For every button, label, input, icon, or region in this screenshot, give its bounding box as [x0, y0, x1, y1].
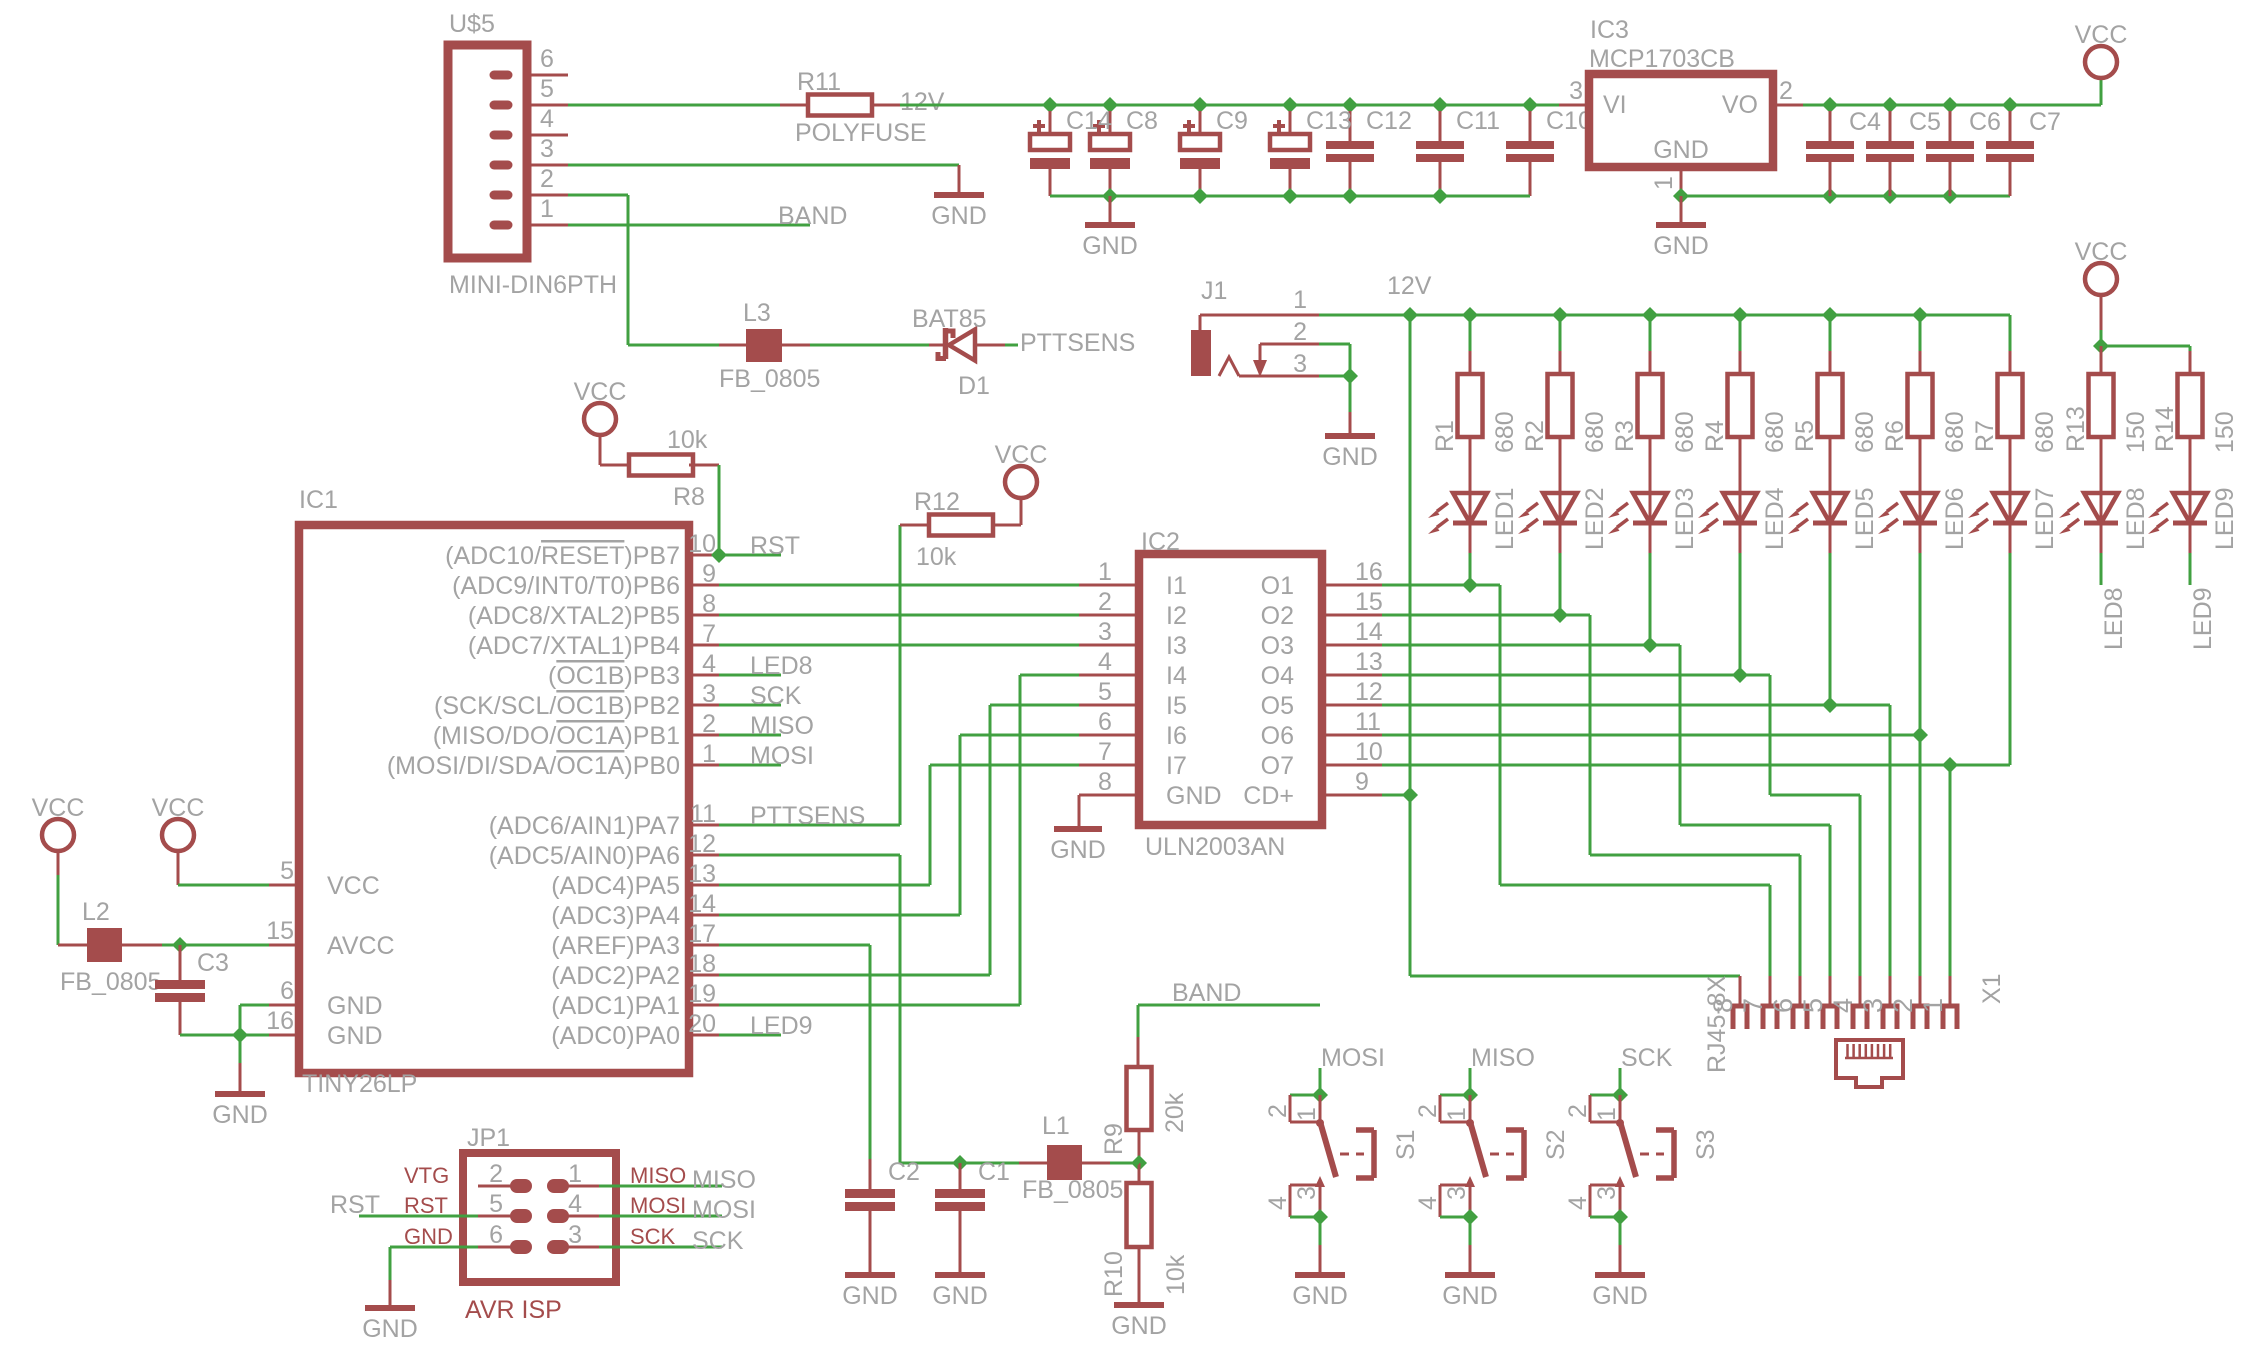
svg-text:GND: GND [1166, 782, 1222, 810]
svg-text:J1: J1 [1201, 277, 1227, 305]
svg-text:U$5: U$5 [449, 10, 495, 38]
svg-text:12: 12 [1355, 678, 1383, 706]
svg-text:MISO: MISO [1471, 1044, 1535, 1072]
svg-text:7: 7 [702, 620, 716, 648]
svg-text:S3: S3 [1692, 1129, 1720, 1160]
svg-text:1: 1 [1098, 558, 1112, 586]
svg-text:PTTSENS: PTTSENS [1020, 329, 1135, 357]
svg-text:4: 4 [702, 650, 716, 678]
svg-text:S1: S1 [1392, 1129, 1420, 1160]
svg-text:5: 5 [540, 75, 554, 103]
svg-text:VO: VO [1722, 91, 1758, 119]
svg-text:R11: R11 [797, 68, 841, 96]
svg-text:IC1: IC1 [299, 486, 338, 514]
svg-text:680: 680 [1761, 411, 1789, 453]
svg-text:VCC: VCC [2075, 21, 2128, 49]
svg-text:(ADC10/RESET)PB7: (ADC10/RESET)PB7 [445, 542, 680, 570]
svg-text:C7: C7 [2029, 108, 2061, 136]
svg-text:GND: GND [362, 1315, 418, 1343]
svg-text:8: 8 [702, 590, 716, 618]
svg-text:R4: R4 [1701, 420, 1729, 452]
svg-text:LED8: LED8 [2100, 587, 2128, 650]
svg-text:9: 9 [702, 560, 716, 588]
svg-text:RST: RST [330, 1191, 380, 1219]
svg-text:12: 12 [688, 830, 716, 858]
svg-text:C13: C13 [1306, 107, 1352, 135]
svg-text:150: 150 [2122, 411, 2150, 453]
svg-text:13: 13 [1355, 648, 1383, 676]
svg-text:(ADC6/AIN1)PA7: (ADC6/AIN1)PA7 [489, 812, 680, 840]
svg-text:10k: 10k [1162, 1254, 1190, 1295]
svg-text:R3: R3 [1611, 420, 1639, 452]
svg-text:680: 680 [1941, 411, 1969, 453]
svg-text:(ADC8/XTAL2)PB5: (ADC8/XTAL2)PB5 [468, 602, 680, 630]
svg-text:150: 150 [2211, 411, 2239, 453]
svg-text:20: 20 [688, 1010, 716, 1038]
svg-text:VCC: VCC [152, 794, 205, 822]
svg-text:I3: I3 [1166, 632, 1187, 660]
svg-text:C12: C12 [1366, 107, 1412, 135]
svg-text:19: 19 [688, 980, 716, 1008]
svg-text:GND: GND [1292, 1282, 1348, 1310]
svg-text:BAT85: BAT85 [912, 305, 987, 333]
svg-text:3: 3 [1098, 618, 1112, 646]
svg-text:3: 3 [1569, 77, 1583, 105]
svg-text:GND: GND [842, 1282, 898, 1310]
svg-text:20k: 20k [1161, 1092, 1189, 1133]
svg-text:1: 1 [702, 740, 716, 768]
svg-text:MCP1703CB: MCP1703CB [1589, 45, 1735, 73]
svg-text:5: 5 [489, 1190, 503, 1218]
svg-text:6: 6 [280, 977, 294, 1005]
svg-text:(ADC7/XTAL1)PB4: (ADC7/XTAL1)PB4 [468, 632, 680, 660]
svg-text:3: 3 [1858, 998, 1888, 1013]
svg-text:MOSI: MOSI [750, 742, 814, 770]
svg-text:3: 3 [1293, 1186, 1321, 1200]
svg-text:(ADC1)PA1: (ADC1)PA1 [551, 992, 680, 1020]
svg-text:7: 7 [1738, 998, 1768, 1013]
svg-text:2: 2 [1564, 1104, 1592, 1118]
svg-text:R8: R8 [673, 483, 705, 511]
svg-text:LED1: LED1 [1491, 487, 1519, 550]
svg-text:CD+: CD+ [1243, 782, 1294, 810]
svg-text:(AREF)PA3: (AREF)PA3 [551, 932, 680, 960]
svg-text:5: 5 [1098, 678, 1112, 706]
svg-text:R9: R9 [1100, 1123, 1128, 1155]
svg-text:2: 2 [1888, 998, 1918, 1013]
svg-text:VI: VI [1603, 91, 1627, 119]
svg-text:6: 6 [489, 1221, 503, 1249]
svg-text:12V: 12V [900, 88, 945, 116]
svg-text:VCC: VCC [32, 794, 85, 822]
svg-text:TINY26LP: TINY26LP [302, 1070, 417, 1098]
svg-text:MISO: MISO [630, 1163, 686, 1188]
svg-text:MOSI: MOSI [630, 1193, 686, 1218]
svg-text:5: 5 [280, 857, 294, 885]
svg-text:C14: C14 [1066, 107, 1112, 135]
svg-text:R7: R7 [1971, 420, 1999, 452]
svg-text:LED7: LED7 [2031, 487, 2059, 550]
svg-text:C6: C6 [1969, 108, 2001, 136]
svg-text:3: 3 [568, 1221, 582, 1249]
svg-text:6: 6 [1098, 708, 1112, 736]
svg-text:O2: O2 [1261, 602, 1294, 630]
svg-text:5: 5 [1798, 998, 1828, 1013]
svg-text:LED6: LED6 [1941, 487, 1969, 550]
svg-text:O1: O1 [1261, 572, 1294, 600]
svg-text:14: 14 [1355, 618, 1383, 646]
svg-text:VCC: VCC [995, 441, 1048, 469]
svg-text:MOSI: MOSI [1321, 1044, 1385, 1072]
svg-text:12V: 12V [1387, 272, 1432, 300]
svg-text:PTTSENS: PTTSENS [750, 802, 865, 830]
svg-text:FB_0805: FB_0805 [719, 365, 820, 393]
svg-text:LED3: LED3 [1671, 487, 1699, 550]
svg-text:(MOSI/DI/SDA/OC1A)PB0: (MOSI/DI/SDA/OC1A)PB0 [387, 752, 680, 780]
svg-text:I1: I1 [1166, 572, 1187, 600]
svg-text:VTG: VTG [404, 1163, 449, 1188]
svg-text:10: 10 [688, 530, 716, 558]
svg-text:MISO: MISO [750, 712, 814, 740]
svg-text:O5: O5 [1261, 692, 1294, 720]
svg-text:(ADC4)PA5: (ADC4)PA5 [551, 872, 680, 900]
svg-text:3: 3 [1443, 1186, 1471, 1200]
svg-text:2: 2 [1098, 588, 1112, 616]
svg-text:18: 18 [688, 950, 716, 978]
svg-text:1: 1 [1293, 286, 1307, 314]
svg-text:C1: C1 [978, 1158, 1010, 1186]
svg-text:SCK: SCK [630, 1224, 676, 1249]
svg-text:680: 680 [1581, 411, 1609, 453]
svg-text:O6: O6 [1261, 722, 1294, 750]
svg-text:I5: I5 [1166, 692, 1187, 720]
svg-text:C11: C11 [1456, 107, 1500, 135]
svg-text:LED5: LED5 [1851, 487, 1879, 550]
svg-text:4: 4 [1414, 1196, 1442, 1210]
svg-text:I4: I4 [1166, 662, 1187, 690]
svg-text:1: 1 [1293, 1107, 1321, 1121]
svg-text:1: 1 [1443, 1107, 1471, 1121]
svg-text:SCK: SCK [692, 1227, 744, 1255]
svg-text:GND: GND [1653, 232, 1709, 260]
svg-text:I7: I7 [1166, 752, 1187, 780]
svg-text:LED9: LED9 [2189, 587, 2217, 650]
svg-text:RST: RST [404, 1193, 448, 1218]
svg-text:O4: O4 [1261, 662, 1294, 690]
svg-text:3: 3 [1293, 350, 1307, 378]
svg-text:1: 1 [1593, 1107, 1621, 1121]
svg-text:(OC1B)PB3: (OC1B)PB3 [548, 662, 680, 690]
svg-text:GND: GND [1322, 443, 1378, 471]
svg-text:13: 13 [688, 860, 716, 888]
svg-text:4: 4 [568, 1190, 582, 1218]
svg-text:VCC: VCC [574, 378, 627, 406]
svg-text:16: 16 [1355, 558, 1383, 586]
svg-text:3: 3 [1593, 1186, 1621, 1200]
svg-text:2: 2 [1293, 318, 1307, 346]
svg-text:2: 2 [489, 1160, 503, 1188]
svg-text:GND: GND [327, 992, 383, 1020]
svg-text:L3: L3 [743, 299, 771, 327]
svg-text:4: 4 [1564, 1196, 1592, 1210]
svg-text:D1: D1 [958, 372, 990, 400]
svg-text:C8: C8 [1126, 107, 1158, 135]
svg-text:IC3: IC3 [1590, 16, 1629, 44]
svg-text:2: 2 [540, 165, 554, 193]
svg-text:FB_0805: FB_0805 [1022, 1176, 1123, 1204]
svg-text:C2: C2 [888, 1158, 920, 1186]
svg-text:I2: I2 [1166, 602, 1187, 630]
svg-text:680: 680 [1491, 411, 1519, 453]
svg-text:R5: R5 [1791, 420, 1819, 452]
svg-text:GND: GND [1653, 136, 1709, 164]
svg-text:ULN2003AN: ULN2003AN [1145, 833, 1285, 861]
svg-text:1: 1 [540, 195, 554, 223]
svg-text:R6: R6 [1881, 420, 1909, 452]
svg-text:(ADC9/INT0/T0)PB6: (ADC9/INT0/T0)PB6 [452, 572, 680, 600]
svg-text:BAND: BAND [1172, 979, 1241, 1007]
svg-text:GND: GND [1050, 836, 1106, 864]
svg-text:C5: C5 [1909, 108, 1941, 136]
svg-text:LED2: LED2 [1581, 487, 1609, 550]
svg-text:6: 6 [540, 45, 554, 73]
svg-text:LED8: LED8 [750, 652, 813, 680]
svg-text:VCC: VCC [327, 872, 380, 900]
svg-text:(ADC5/AIN0)PA6: (ADC5/AIN0)PA6 [489, 842, 680, 870]
svg-text:11: 11 [1355, 708, 1381, 736]
svg-text:680: 680 [2031, 411, 2059, 453]
svg-text:680: 680 [1671, 411, 1699, 453]
svg-text:4: 4 [1828, 998, 1858, 1013]
svg-text:8: 8 [1098, 768, 1112, 796]
svg-text:JP1: JP1 [467, 1124, 510, 1152]
svg-text:2: 2 [1414, 1104, 1442, 1118]
svg-text:GND: GND [404, 1224, 453, 1249]
svg-text:1: 1 [1650, 176, 1678, 190]
svg-text:15: 15 [266, 917, 294, 945]
svg-text:9: 9 [1355, 768, 1369, 796]
svg-text:2: 2 [1779, 77, 1793, 105]
svg-text:(ADC0)PA0: (ADC0)PA0 [551, 1022, 680, 1050]
svg-text:11: 11 [690, 800, 716, 828]
svg-text:6: 6 [1768, 998, 1798, 1013]
svg-text:1: 1 [568, 1160, 582, 1188]
svg-text:C9: C9 [1216, 107, 1248, 135]
svg-text:(SCK/SCL/OC1B)PB2: (SCK/SCL/OC1B)PB2 [434, 692, 680, 720]
svg-text:1: 1 [1918, 998, 1948, 1013]
svg-text:MISO: MISO [692, 1166, 756, 1194]
svg-text:2: 2 [1264, 1104, 1292, 1118]
svg-text:GND: GND [1592, 1282, 1648, 1310]
svg-text:VCC: VCC [2075, 238, 2128, 266]
svg-text:14: 14 [688, 890, 716, 918]
svg-text:AVCC: AVCC [327, 932, 395, 960]
svg-text:GND: GND [212, 1101, 268, 1129]
svg-text:GND: GND [1442, 1282, 1498, 1310]
svg-text:LED8: LED8 [2122, 487, 2150, 550]
svg-text:R1: R1 [1431, 420, 1459, 452]
svg-text:LED4: LED4 [1761, 487, 1789, 550]
svg-text:R14: R14 [2151, 406, 2179, 452]
svg-text:10k: 10k [916, 543, 957, 571]
svg-text:AVR ISP: AVR ISP [465, 1296, 562, 1324]
svg-text:POLYFUSE: POLYFUSE [795, 119, 927, 147]
svg-text:GND: GND [327, 1022, 383, 1050]
svg-text:S2: S2 [1542, 1129, 1570, 1160]
svg-text:10k: 10k [667, 426, 708, 454]
svg-text:2: 2 [702, 710, 716, 738]
svg-text:O3: O3 [1261, 632, 1294, 660]
svg-text:10: 10 [1355, 738, 1383, 766]
svg-text:SCK: SCK [750, 682, 802, 710]
svg-text:GND: GND [932, 1282, 988, 1310]
svg-text:BAND: BAND [778, 202, 847, 230]
svg-text:4: 4 [1098, 648, 1112, 676]
svg-text:L1: L1 [1042, 1112, 1070, 1140]
svg-text:R10: R10 [1100, 1251, 1128, 1297]
svg-text:RST: RST [750, 532, 800, 560]
svg-text:MOSI: MOSI [692, 1196, 756, 1224]
svg-text:(MISO/DO/OC1A)PB1: (MISO/DO/OC1A)PB1 [433, 722, 680, 750]
svg-text:R2: R2 [1521, 420, 1549, 452]
svg-text:X1: X1 [1978, 973, 2006, 1004]
svg-text:O7: O7 [1261, 752, 1294, 780]
svg-text:(ADC2)PA2: (ADC2)PA2 [551, 962, 680, 990]
svg-text:GND: GND [931, 202, 987, 230]
svg-text:MINI-DIN6PTH: MINI-DIN6PTH [449, 271, 617, 299]
svg-text:680: 680 [1851, 411, 1879, 453]
svg-text:GND: GND [1082, 232, 1138, 260]
svg-text:(ADC3)PA4: (ADC3)PA4 [551, 902, 680, 930]
svg-text:16: 16 [266, 1007, 294, 1035]
svg-text:I6: I6 [1166, 722, 1187, 750]
svg-text:4: 4 [540, 105, 554, 133]
svg-text:GND: GND [1111, 1312, 1167, 1340]
svg-text:15: 15 [1355, 588, 1383, 616]
svg-text:FB_0805: FB_0805 [60, 968, 161, 996]
svg-text:R12: R12 [914, 488, 960, 516]
svg-text:IC2: IC2 [1141, 528, 1180, 556]
svg-text:L2: L2 [82, 898, 110, 926]
svg-text:4: 4 [1264, 1196, 1292, 1210]
svg-text:RJ45-8X: RJ45-8X [1703, 975, 1731, 1073]
svg-text:SCK: SCK [1621, 1044, 1673, 1072]
svg-text:LED9: LED9 [750, 1012, 813, 1040]
svg-text:17: 17 [688, 920, 716, 948]
svg-text:3: 3 [540, 135, 554, 163]
svg-text:R13: R13 [2062, 406, 2090, 452]
svg-text:C4: C4 [1849, 108, 1881, 136]
svg-text:LED9: LED9 [2211, 487, 2239, 550]
svg-text:C3: C3 [197, 949, 229, 977]
svg-text:7: 7 [1098, 738, 1112, 766]
svg-text:3: 3 [702, 680, 716, 708]
